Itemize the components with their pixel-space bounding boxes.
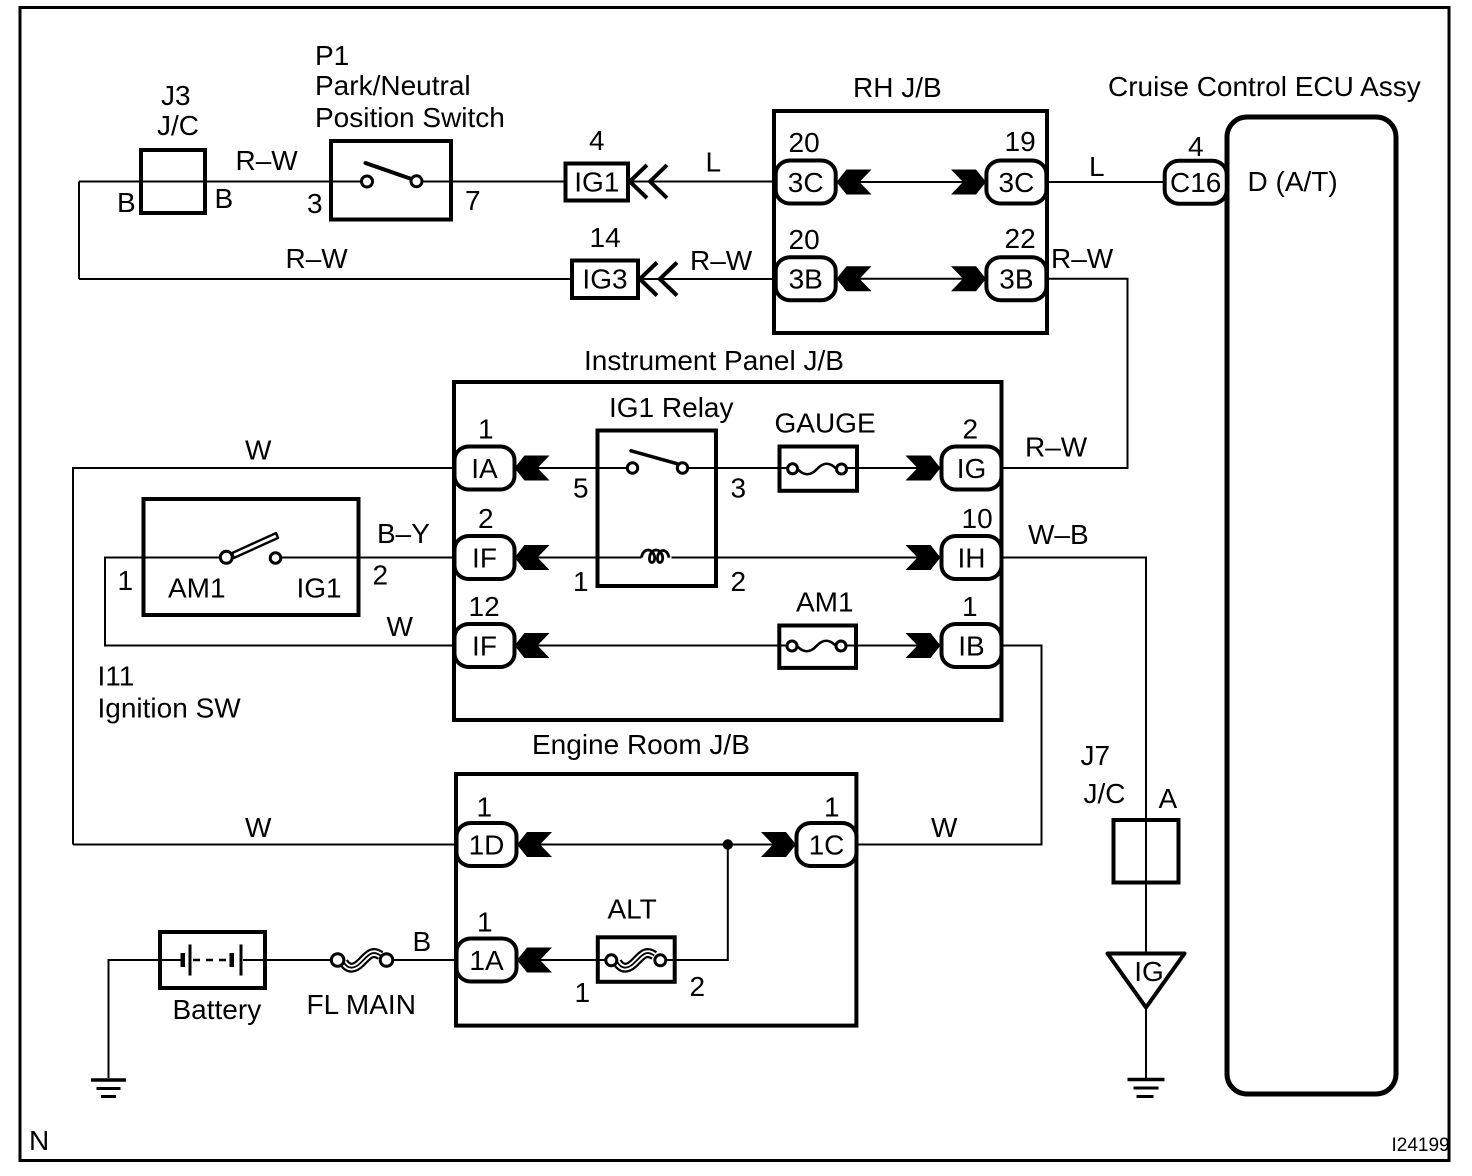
svg-text:I11: I11 bbox=[98, 661, 135, 692]
Instrument Panel J/B box bbox=[454, 382, 1002, 720]
wire: IB down to 1C bbox=[857, 646, 1042, 845]
svg-text:Engine Room J/B: Engine Room J/B bbox=[532, 729, 750, 760]
arrow (left) in RH J/B row2 bbox=[837, 266, 872, 291]
wire: IG triangle to ground bbox=[1145, 1007, 1147, 1078]
junction connector J7 bbox=[1114, 820, 1179, 883]
svg-text:2: 2 bbox=[690, 971, 706, 1002]
svg-text:1: 1 bbox=[477, 792, 493, 823]
arrow into IG bbox=[906, 456, 941, 481]
svg-text:10: 10 bbox=[962, 503, 993, 534]
svg-text:IF: IF bbox=[472, 631, 497, 662]
svg-text:J/C: J/C bbox=[157, 110, 199, 141]
svg-text:20: 20 bbox=[789, 224, 820, 255]
connector oval 1C, pin 1 bbox=[797, 823, 857, 866]
wire: relay switch to GAUGE fuse bbox=[688, 467, 788, 469]
svg-text:ALT: ALT bbox=[608, 894, 657, 925]
svg-text:P1: P1 bbox=[315, 40, 349, 71]
svg-text:AM1: AM1 bbox=[796, 587, 854, 618]
svg-text:R–W: R–W bbox=[236, 145, 299, 176]
svg-text:IF: IF bbox=[472, 543, 497, 574]
connector IG3 bbox=[572, 261, 638, 299]
connector oval C16, pin 4 bbox=[1165, 161, 1227, 204]
Engine Room J/B box bbox=[456, 774, 856, 1026]
fusible link ALT bbox=[598, 937, 675, 982]
connector oval 3B (right), pin 22 bbox=[986, 257, 1046, 300]
svg-text:W: W bbox=[387, 611, 414, 642]
svg-text:1D: 1D bbox=[469, 830, 505, 861]
wire: between 3B ovals bbox=[836, 278, 987, 280]
wire: ALT fuse up to 1D-1C junction bbox=[666, 845, 728, 961]
svg-text:1: 1 bbox=[575, 977, 591, 1008]
connector oval 1A, pin 1 bbox=[457, 939, 517, 982]
svg-text:D (A/T): D (A/T) bbox=[1248, 166, 1338, 197]
connector oval IA, pin 1 bbox=[455, 447, 515, 490]
svg-text:L: L bbox=[706, 147, 722, 178]
arrow (left) in RH J/B row1 bbox=[837, 170, 872, 195]
wire: J3 row left segment bbox=[79, 181, 362, 183]
wire: battery negative to ground bbox=[109, 960, 161, 1078]
svg-text:R–W: R–W bbox=[1051, 243, 1114, 274]
wire: left vertical drop J3 row to IG3 row bbox=[78, 182, 80, 280]
relay coil bbox=[642, 550, 670, 562]
svg-text:22: 22 bbox=[1005, 223, 1036, 254]
ground point IG triangle bbox=[1108, 954, 1185, 1008]
arrow (right) in RH J/B row2 bbox=[951, 266, 986, 291]
svg-text:Cruise Control ECU Assy: Cruise Control ECU Assy bbox=[1108, 71, 1421, 102]
wire: 1D to 1C with junction bbox=[517, 844, 797, 846]
connector oval IF, pin 2 bbox=[455, 536, 515, 579]
wire: IG3 chevrons to 3B bbox=[638, 278, 776, 280]
chevron arrows into IG1 bbox=[630, 165, 667, 198]
wire: W to IA row bbox=[73, 468, 455, 845]
connector oval IF, pin 12 bbox=[455, 624, 515, 667]
ground (battery) bbox=[91, 1080, 126, 1097]
svg-text:RH J/B: RH J/B bbox=[853, 72, 942, 103]
chevron arrows into IG3 bbox=[640, 263, 677, 296]
arrow into 1D bbox=[517, 832, 552, 857]
svg-text:B: B bbox=[413, 926, 432, 957]
wire: 3C right to C16 bbox=[1047, 181, 1166, 183]
svg-text:2: 2 bbox=[478, 503, 494, 534]
svg-text:B: B bbox=[215, 183, 234, 214]
svg-text:IB: IB bbox=[958, 631, 984, 662]
junction connector J3 bbox=[141, 150, 205, 213]
connector oval IB, pin 1 bbox=[942, 624, 1002, 667]
wire: IF2 to AM1 fuse bbox=[515, 645, 788, 647]
svg-text:R–W: R–W bbox=[690, 245, 753, 276]
svg-text:A: A bbox=[1159, 783, 1178, 814]
wire: GAUGE fuse to IG oval bbox=[847, 467, 942, 469]
connector oval 3B (left), pin 20 bbox=[776, 257, 836, 300]
svg-text:N: N bbox=[29, 1125, 49, 1156]
svg-text:IG3: IG3 bbox=[582, 264, 627, 295]
svg-text:3B: 3B bbox=[999, 264, 1033, 295]
wire: IG3 row bbox=[79, 278, 572, 280]
svg-text:1A: 1A bbox=[469, 945, 504, 976]
svg-text:5: 5 bbox=[573, 473, 589, 504]
wire: FL MAIN to 1A (B) bbox=[393, 959, 457, 961]
svg-text:1: 1 bbox=[118, 565, 134, 596]
svg-text:Park/Neutral: Park/Neutral bbox=[315, 70, 471, 101]
relay switch bbox=[631, 451, 678, 464]
fuse GAUGE bbox=[780, 447, 858, 491]
svg-text:L: L bbox=[1089, 151, 1105, 182]
svg-text:3C: 3C bbox=[999, 167, 1035, 198]
wire: 1A to ALT fuse bbox=[517, 959, 606, 961]
wire: battery to FL MAIN bbox=[265, 959, 331, 961]
svg-text:1C: 1C bbox=[809, 830, 845, 861]
svg-text:2: 2 bbox=[373, 560, 389, 591]
park/neutral position switch P1 bbox=[331, 141, 451, 220]
wire: IF to relay coil bbox=[515, 557, 642, 559]
svg-text:12: 12 bbox=[469, 591, 500, 622]
arrow into 1A bbox=[517, 948, 552, 973]
wire: IG1 chevrons to RH J/B 3C bbox=[628, 181, 776, 183]
svg-text:1: 1 bbox=[824, 792, 840, 823]
cruise control ECU assy box bbox=[1227, 117, 1396, 1094]
svg-text:2: 2 bbox=[963, 414, 979, 445]
svg-text:IA: IA bbox=[471, 453, 498, 484]
svg-text:Battery: Battery bbox=[173, 994, 262, 1025]
battery bbox=[160, 932, 265, 988]
wire: ignition IG1 pin to IF oval (B-Y) bbox=[281, 557, 455, 559]
svg-text:J/C: J/C bbox=[1084, 778, 1126, 809]
connector oval 3C (right), pin 19 bbox=[986, 161, 1046, 204]
svg-text:J7: J7 bbox=[1081, 740, 1111, 771]
wire: P1 to IG1 box bbox=[422, 181, 566, 183]
fusible link FL MAIN bbox=[331, 953, 393, 968]
svg-text:4: 4 bbox=[589, 125, 605, 156]
svg-text:B–Y: B–Y bbox=[377, 518, 430, 549]
svg-text:1: 1 bbox=[962, 591, 978, 622]
wire: IH to J7 drop (W-B) bbox=[1002, 558, 1147, 954]
svg-text:3B: 3B bbox=[789, 264, 823, 295]
svg-text:IH: IH bbox=[958, 543, 986, 574]
svg-text:C16: C16 bbox=[1170, 167, 1221, 198]
svg-text:14: 14 bbox=[590, 222, 621, 253]
svg-text:R–W: R–W bbox=[286, 243, 349, 274]
fuse AM1 bbox=[779, 626, 856, 668]
connector oval IG, pin 2 bbox=[942, 447, 1002, 490]
svg-text:1: 1 bbox=[477, 907, 493, 938]
svg-text:R–W: R–W bbox=[1025, 432, 1088, 463]
svg-text:AM1: AM1 bbox=[168, 573, 226, 604]
arrow into IB bbox=[906, 633, 941, 658]
svg-text:Ignition SW: Ignition SW bbox=[98, 693, 242, 724]
connector oval 1D, pin 1 bbox=[457, 823, 517, 866]
svg-text:1: 1 bbox=[573, 566, 589, 597]
connector oval IH, pin 10 bbox=[942, 536, 1002, 579]
wire: 3B right to IG oval (R-W) bbox=[1002, 279, 1128, 468]
svg-text:IG1: IG1 bbox=[297, 573, 342, 604]
connector IG1 bbox=[566, 164, 629, 201]
svg-text:W: W bbox=[245, 435, 272, 466]
svg-text:GAUGE: GAUGE bbox=[775, 408, 876, 439]
arrow into 1C bbox=[761, 832, 796, 857]
svg-text:IG: IG bbox=[957, 453, 987, 484]
connector oval 3C (left), pin 20 bbox=[776, 161, 836, 204]
svg-text:FL MAIN: FL MAIN bbox=[307, 989, 416, 1020]
wire: ignition switch pin1 leg bbox=[105, 558, 455, 646]
wire: relay coil to IH oval bbox=[672, 557, 942, 559]
arrow into IA bbox=[515, 456, 550, 481]
svg-text:IG: IG bbox=[1134, 956, 1164, 987]
arrow (right) in RH J/B row1 bbox=[951, 170, 986, 195]
svg-text:IG1 Relay: IG1 Relay bbox=[609, 392, 734, 423]
IG1 relay box bbox=[598, 431, 717, 587]
svg-text:3C: 3C bbox=[788, 167, 824, 198]
svg-text:20: 20 bbox=[789, 127, 820, 158]
svg-text:I24199: I24199 bbox=[1392, 1135, 1450, 1156]
svg-text:Position Switch: Position Switch bbox=[315, 102, 505, 133]
ground (IG) bbox=[1128, 1080, 1165, 1097]
wire: W row to 1D bbox=[73, 844, 457, 846]
svg-text:B: B bbox=[117, 187, 136, 218]
junction node (1D/1C/ALT) bbox=[723, 839, 733, 849]
wire: between 3C ovals bbox=[836, 181, 987, 183]
svg-text:IG1: IG1 bbox=[574, 167, 619, 198]
arrow into IH bbox=[906, 545, 941, 570]
wire: AM1 fuse to IB oval bbox=[846, 645, 941, 647]
svg-text:3: 3 bbox=[307, 188, 323, 219]
svg-text:1: 1 bbox=[478, 414, 494, 445]
ignition switch I11 bbox=[144, 499, 359, 615]
RH J/B box bbox=[774, 111, 1047, 333]
svg-text:W: W bbox=[931, 812, 958, 843]
svg-text:2: 2 bbox=[731, 566, 747, 597]
svg-text:Instrument Panel J/B: Instrument Panel J/B bbox=[584, 345, 844, 376]
svg-text:J3: J3 bbox=[161, 80, 191, 111]
svg-text:19: 19 bbox=[1005, 126, 1036, 157]
wire: IA to relay switch bbox=[515, 467, 628, 469]
arrow into IF (12) bbox=[515, 633, 550, 658]
arrow into IF bbox=[515, 545, 550, 570]
svg-text:W: W bbox=[245, 812, 272, 843]
svg-text:3: 3 bbox=[731, 473, 747, 504]
svg-text:4: 4 bbox=[1188, 131, 1204, 162]
svg-text:7: 7 bbox=[465, 185, 481, 216]
svg-text:W–B: W–B bbox=[1028, 519, 1089, 550]
